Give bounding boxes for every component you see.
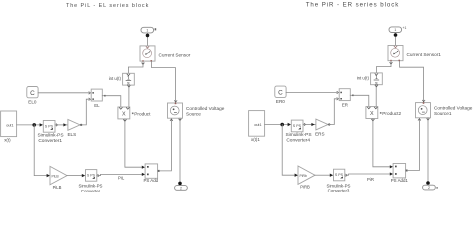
controlled voltage source block (168, 103, 183, 119)
Simulink-PS Converter1 block (43, 121, 55, 133)
gain ELS (triangle) (68, 120, 80, 131)
svg-text:The PiL - EL series block: The PiL - EL series block (66, 3, 149, 9)
svg-text:Converter3: Converter3 (328, 189, 350, 193)
svg-text:ER: ER (342, 103, 348, 108)
integrator block 1/s (int u(t)) (123, 73, 135, 87)
connection port Conn1 (oval "1") (141, 27, 156, 33)
svg-text:int u(t): int u(t) (109, 76, 122, 81)
current sensor block (140, 46, 155, 62)
EL subsystem block (89, 89, 106, 101)
ER subsystem block (337, 89, 354, 101)
product2 block (366, 107, 382, 119)
wire: gain PiRB to Simulink-PS Converter3 (315, 174, 330, 176)
arrowhead into converter1 (40, 123, 43, 126)
svg-text:PiL: PiL (118, 176, 125, 181)
integrator block 1/s (int u(t)) right half (371, 73, 383, 87)
wire: converter1 to gain ELS (56, 124, 58, 126)
gain PiLB (triangle) (50, 166, 67, 184)
wire: PS Add1 output to voltage source1 bottom-left port (408, 119, 420, 171)
arrowhead into gain PiLB (47, 174, 50, 177)
junction node below Conn1 (146, 34, 150, 38)
svg-text:PiR: PiR (367, 177, 374, 182)
svg-text:Controlled Voltage: Controlled Voltage (434, 105, 473, 110)
output port circle of ELS (80, 124, 82, 126)
junction node at reference (178, 182, 182, 186)
wire: converter2 to PS Add input 2 (98, 175, 100, 177)
junction node at reference right half (426, 181, 430, 185)
out1 source block (x(t)1) (249, 111, 265, 137)
port arrow at product bottom (124, 120, 127, 122)
svg-text:Simulink-PS: Simulink-PS (285, 132, 311, 138)
svg-text:C: C (30, 90, 35, 97)
port arrow on sensor left-bottom wire (142, 63, 144, 64)
product block (118, 107, 134, 119)
wire: Conn1 to Current Sensor1 top (395, 33, 397, 46)
wire: product2 output down to PS Add1 input 1 (373, 119, 390, 167)
PS Add block (145, 164, 160, 178)
port arrow at integrator bottom (128, 86, 130, 88)
wire: x(t)1 branch down to gain PiRB (282, 125, 294, 176)
wire: EL output to product top-left input (106, 96, 121, 107)
wire: voltage source1 bottom-right port to reference node (427, 118, 429, 181)
wire: converter3 to PS Add1 input 2 (346, 174, 348, 176)
wire: ER output to product2 top-left input (354, 95, 369, 106)
svg-text:2: 2 (428, 186, 430, 190)
svg-text:Source1: Source1 (434, 111, 452, 116)
svg-text:int u(t): int u(t) (357, 76, 370, 81)
Simulink-PS Converter2 block (86, 170, 97, 182)
out1 source block (x(t)) (1, 111, 17, 137)
wire: voltage source bottom-right port to reference node (179, 118, 181, 181)
svg-text:out1: out1 (6, 123, 13, 127)
svg-text:ELS: ELS (67, 132, 76, 137)
wire: integrator bottom to product top-right input (128, 85, 130, 106)
connection port Conn1 (oval "1") right half (389, 26, 406, 32)
wire: PS Add output to voltage source bottom-left port (160, 119, 172, 171)
junction node below Conn1 right half (394, 33, 398, 37)
wire: ELS up to EL subsystem input 2 (80, 99, 89, 125)
wire: out1 to Simulink-PS Converter4 (265, 124, 288, 126)
svg-text:PiRB: PiRB (300, 185, 310, 190)
wire: x(t) branch down to gain PiLB (34, 125, 46, 176)
wire: integrator bottom to product2 top-right input (375, 85, 377, 106)
gain ERS (triangle) (316, 119, 328, 130)
svg-text:S PS: S PS (87, 173, 96, 177)
svg-text:2: 2 (180, 186, 182, 190)
wire: C to EL subsystem input 1 (38, 92, 89, 94)
svg-text:ERS: ERS (315, 132, 324, 137)
wire: sensor right port down-right to voltage source top (152, 62, 176, 103)
wire: product output down to PS Add input 1 (125, 119, 142, 167)
svg-text:EL: EL (94, 103, 100, 108)
Simulink-PS Converter4 block (291, 120, 303, 132)
connection port Conn2 (oval "2") right half (423, 185, 438, 190)
port arrow at voltage source top (175, 101, 177, 103)
svg-text:Product: Product (134, 111, 151, 116)
svg-text:S PS: S PS (45, 124, 54, 128)
svg-text:ER0: ER0 (276, 99, 285, 104)
connection port Conn2 (oval "2") (175, 186, 188, 191)
wire: gain PiLB to Simulink-PS Converter2 (67, 175, 82, 177)
svg-text:PS Add: PS Add (143, 178, 158, 183)
svg-text:The PiR - ER series block: The PiR - ER series block (306, 2, 400, 9)
svg-text:Product2: Product2 (382, 111, 401, 116)
svg-text:+1: +1 (403, 26, 407, 30)
constant block C (EL0) (27, 87, 38, 98)
svg-text:Converter1: Converter1 (38, 138, 62, 144)
svg-text:X: X (122, 111, 126, 117)
wire: out1 to Simulink-PS Converter1 (17, 124, 40, 126)
PS Add1 block (393, 164, 408, 178)
gain PiRB (triangle) (298, 166, 315, 184)
wire: sensor1 right port to voltage source1 top (400, 61, 424, 102)
svg-text:1: 1 (146, 29, 148, 33)
controlled voltage source1 block (416, 102, 431, 118)
svg-text:EL0: EL0 (28, 99, 37, 104)
svg-text:PiLB: PiLB (52, 174, 60, 178)
constant block C (ER0) (275, 86, 286, 97)
svg-text:x(t)1: x(t)1 (251, 137, 260, 142)
svg-text:1: 1 (394, 28, 396, 32)
wire: sensor left port down-left to integrator top (128, 62, 143, 74)
svg-text:Current Sensor: Current Sensor (159, 52, 191, 57)
arrowhead into ELS (63, 123, 66, 126)
svg-text:Converter4: Converter4 (286, 137, 310, 143)
svg-text:Current Sensor1: Current Sensor1 (407, 52, 442, 57)
arrowhead into converter2 (82, 174, 85, 177)
junction node on x(t) line (32, 123, 36, 127)
arrowhead into PS Add in1 (142, 166, 145, 169)
wire: ERS up to ER subsystem input 2 (328, 99, 337, 125)
svg-text:Source: Source (186, 111, 201, 116)
svg-text:Converter: Converter (81, 189, 101, 192)
svg-text:x(t): x(t) (4, 138, 11, 143)
svg-text:PS Add1: PS Add1 (391, 178, 409, 183)
current sensor1 block (388, 46, 403, 62)
Simulink-PS Converter3 block (334, 169, 345, 181)
svg-text:S PS: S PS (293, 124, 302, 128)
svg-text:S PS: S PS (335, 173, 344, 177)
arrowhead into PS Add in2 (142, 173, 145, 176)
wire: C to ER subsystem input 1 (286, 91, 337, 93)
svg-text:out1: out1 (254, 123, 261, 127)
svg-text:X: X (370, 111, 374, 117)
svg-text:PiRb: PiRb (300, 174, 307, 178)
svg-text:Simulink-PS: Simulink-PS (37, 133, 63, 139)
wire: Conn1 to Current Sensor top (147, 33, 149, 46)
svg-text:Controlled Voltage: Controlled Voltage (186, 106, 225, 111)
junction node on x(t)1 line (280, 123, 284, 127)
wire: converter4 to gain ERS (304, 123, 306, 125)
svg-text:PiLB: PiLB (53, 185, 62, 190)
port arrow at voltage source bottom-left (170, 119, 172, 121)
svg-text:C: C (278, 89, 283, 96)
wire: sensor1 left port to integrator top (376, 61, 391, 73)
port arrow at voltage source bottom-right (179, 119, 181, 121)
